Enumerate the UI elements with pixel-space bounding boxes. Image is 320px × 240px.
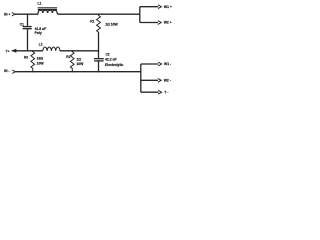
svg-text:1Ω 10W: 1Ω 10W (105, 23, 118, 27)
svg-text:42.2 uF: 42.2 uF (105, 58, 117, 62)
connector W2+ chevron (158, 21, 161, 25)
wire W1- stub (141, 63, 159, 65)
svg-text:IN -: IN - (4, 69, 9, 73)
wire T- stub (141, 91, 159, 93)
svg-text:C2: C2 (106, 52, 110, 56)
svg-text:18Ω: 18Ω (37, 57, 44, 61)
resistor R1 zigzag (97, 14, 101, 32)
connector W1+ chevron (158, 5, 161, 9)
wire T+ rail right (60, 50, 99, 52)
connector W1- chevron (158, 62, 161, 66)
wire top output vertical (139, 7, 141, 23)
wire C1 lower lead (27, 29, 29, 50)
connector W2- chevron (158, 78, 161, 82)
wire C2 lower lead (98, 62, 100, 72)
wire IN+ to L1 (15, 13, 38, 15)
svg-text:C1: C1 (20, 22, 24, 26)
resistor R3 zigzag (31, 51, 35, 72)
svg-text:L1: L1 (38, 2, 42, 6)
wire W2+ stub (140, 22, 158, 24)
node A junction dot (27, 13, 29, 15)
node mid junction dot (98, 50, 100, 52)
svg-text:R1: R1 (90, 19, 94, 23)
wire C1 upper lead (27, 14, 29, 26)
wire W1+ stub (140, 6, 158, 8)
svg-text:W1 +: W1 + (164, 5, 172, 9)
svg-text:Poly: Poly (35, 31, 42, 35)
wire T+ rail left (16, 50, 43, 52)
svg-text:IN +: IN + (4, 13, 10, 17)
wire R1 bottom lead (98, 32, 100, 51)
inductor L1 core bar 1 (38, 7, 57, 8)
wire bottom rail (15, 71, 141, 73)
capacitor C2 bottom plate (94, 60, 103, 62)
connector T- chevron (158, 90, 161, 94)
wire bottom output vertical (140, 64, 142, 92)
wire C2 upper lead (98, 51, 100, 58)
svg-text:W2 +: W2 + (164, 21, 172, 25)
wire top rail L1 to corner (58, 13, 140, 15)
svg-text:W1 -: W1 - (164, 62, 171, 66)
svg-text:L2: L2 (39, 43, 43, 47)
svg-text:T -: T - (164, 91, 168, 95)
node R3 bottom dot (32, 71, 34, 73)
connector IN- chevron (12, 70, 15, 74)
svg-text:10W: 10W (76, 62, 84, 66)
node C2 bottom dot (98, 71, 100, 73)
svg-text:T+: T+ (6, 49, 10, 53)
wire W2- stub (141, 79, 158, 81)
svg-text:W2 -: W2 - (164, 79, 171, 83)
node R1 top junction dot (98, 13, 100, 15)
inductor L2 winding (43, 47, 60, 51)
connector T+ arrow (11, 49, 16, 53)
node R3 junction dot (32, 50, 34, 52)
inductor L1 winding (38, 10, 58, 14)
inductor L1 core bar 2 (38, 9, 57, 10)
node R2 junction dot (72, 50, 74, 52)
capacitor C2 top plate (94, 58, 104, 60)
resistor R2 zigzag (70, 51, 74, 72)
svg-text:R3: R3 (24, 56, 28, 60)
capacitor C1 top plate (23, 26, 32, 28)
capacitor C1 bottom plate (23, 28, 32, 30)
connector IN+ chevron (12, 12, 15, 16)
svg-text:10W: 10W (37, 61, 45, 65)
svg-text:Electrolytic: Electrolytic (105, 63, 123, 67)
node R2 bottom dot (73, 71, 75, 73)
